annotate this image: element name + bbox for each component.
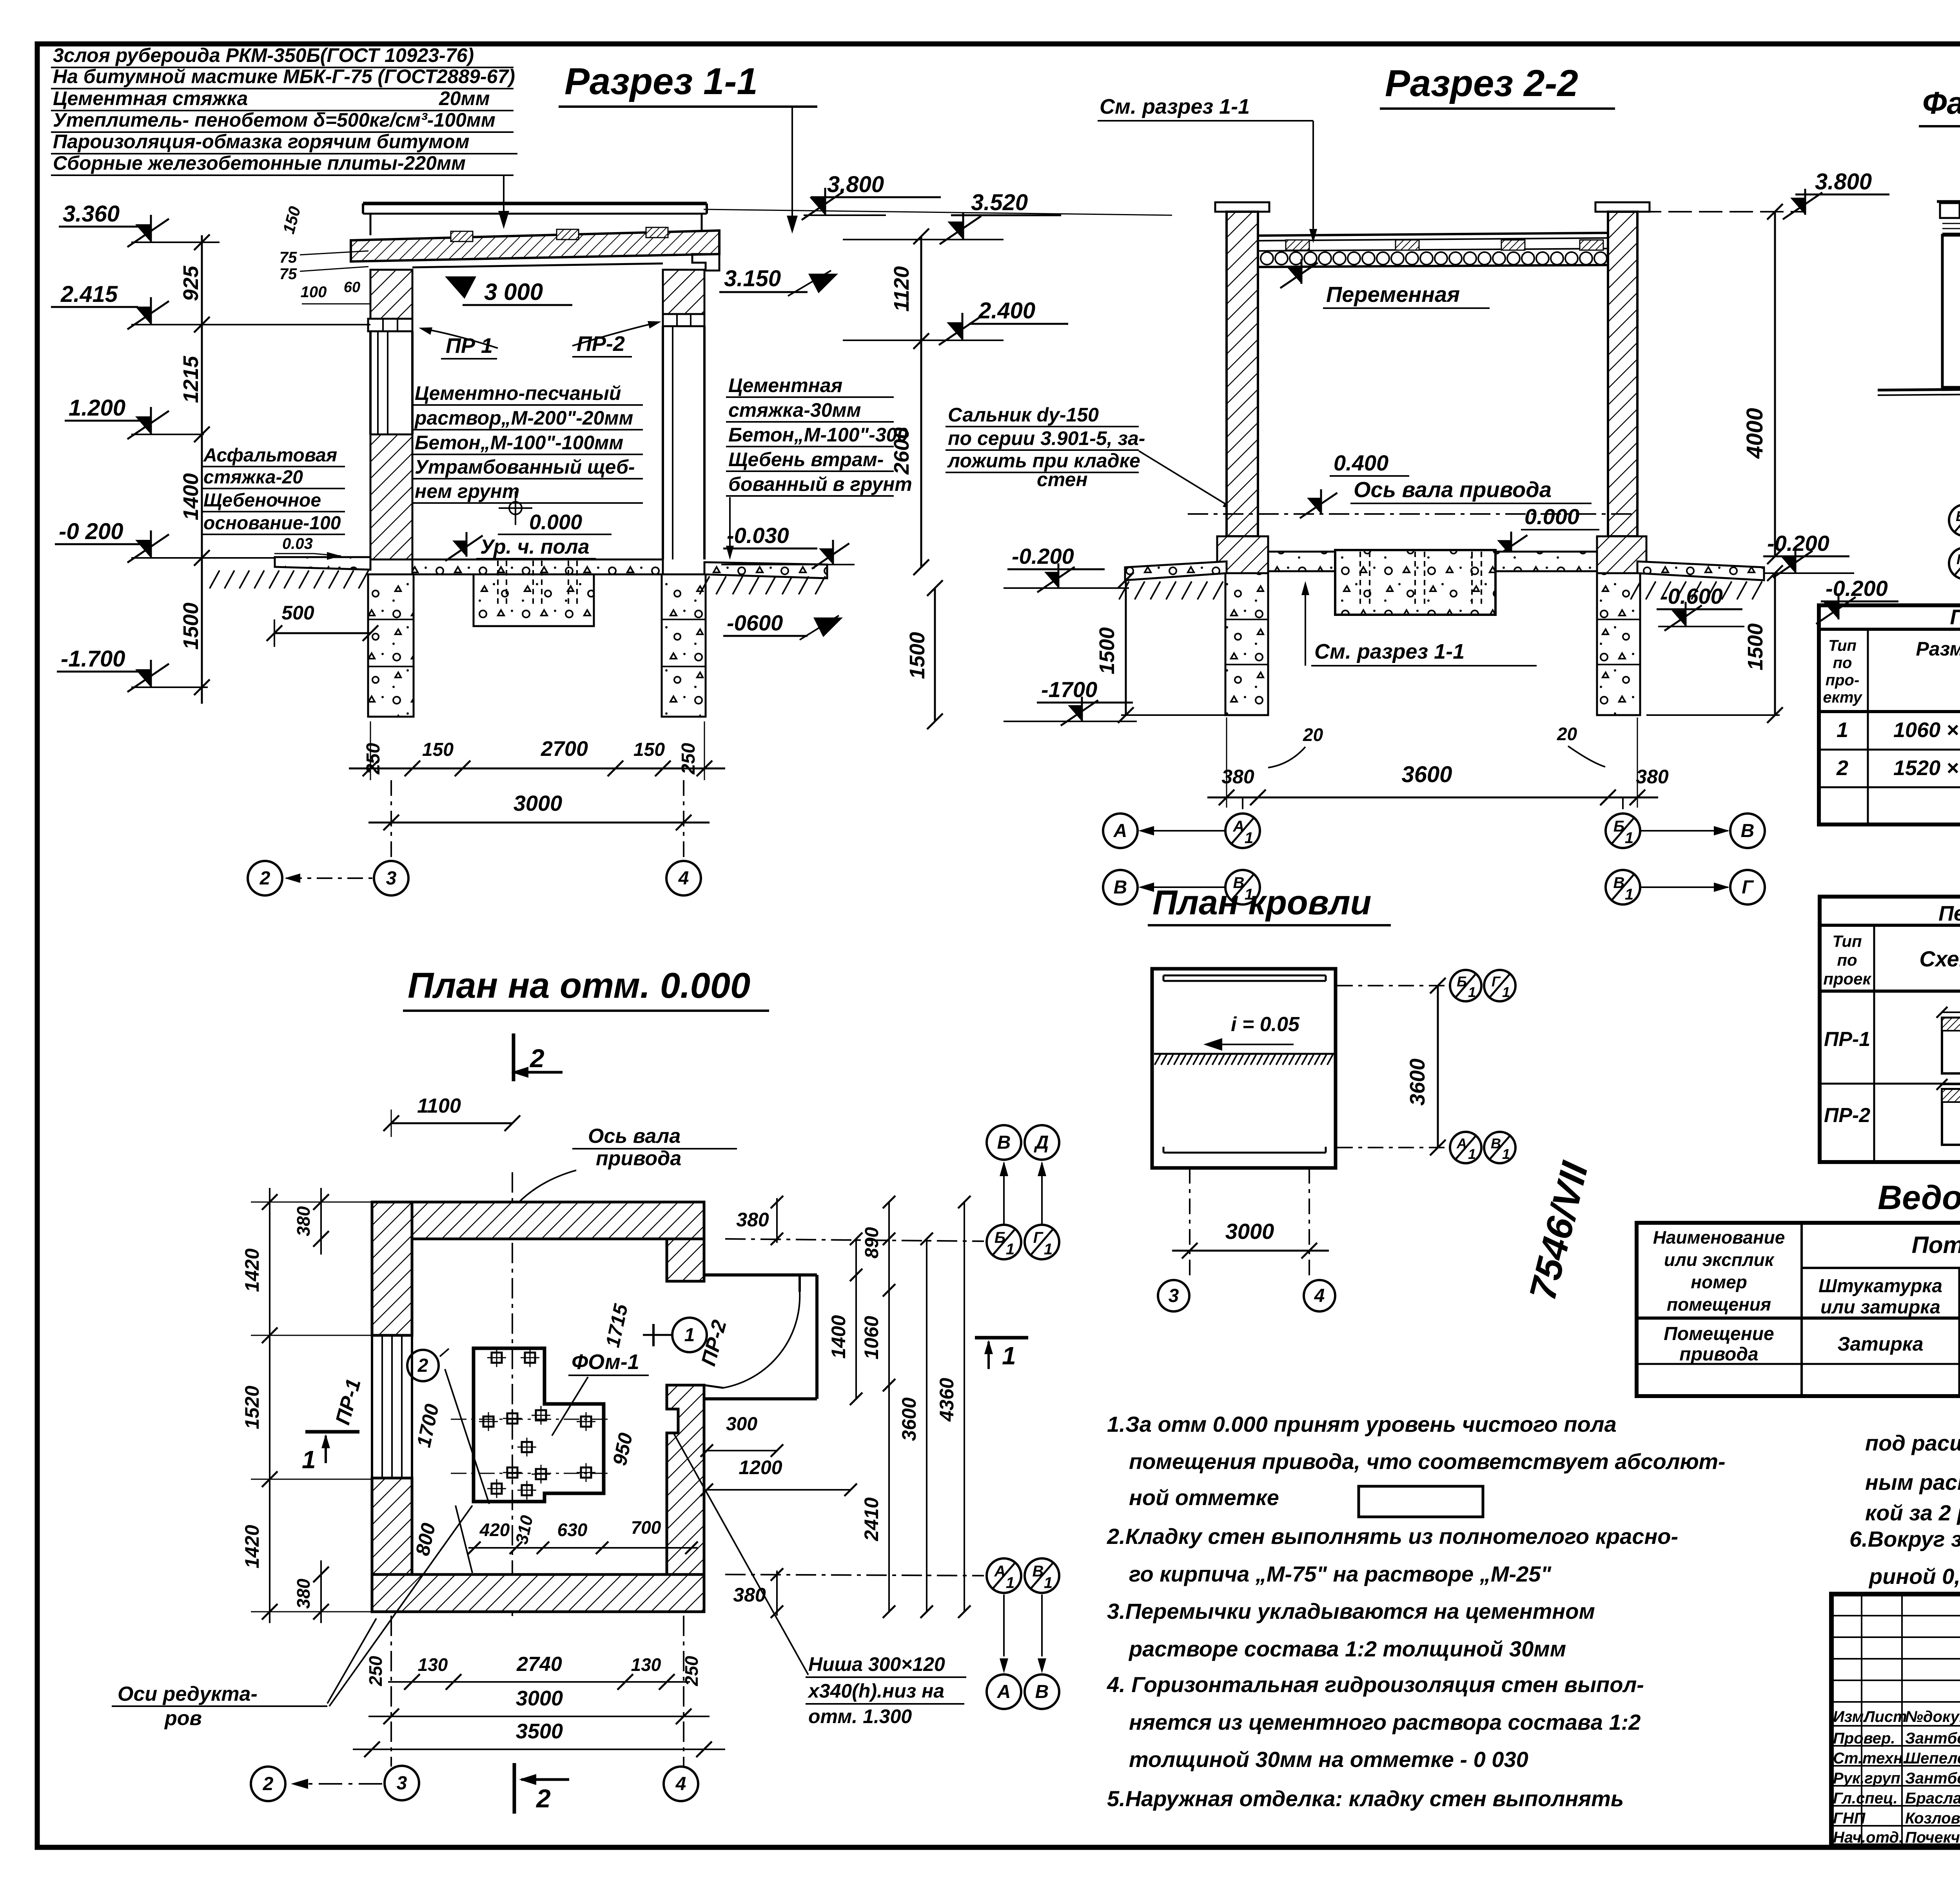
door leaf and swing arc bbox=[799, 1275, 801, 1292]
dim 1500 left (section 2-2) bbox=[1125, 580, 1127, 715]
svg-text:Сборные железобетонные плиты-2: Сборные железобетонные плиты-220мм bbox=[53, 152, 466, 174]
svg-text:3.520: 3.520 bbox=[971, 190, 1028, 215]
svg-text:Зантберг: Зантберг bbox=[1905, 1770, 1960, 1787]
svg-text:Ур. ч. пола: Ур. ч. пола bbox=[480, 536, 590, 558]
svg-text:ПР-2: ПР-2 bbox=[1824, 1104, 1870, 1127]
svg-text:Схема сечения: Схема сечения bbox=[1919, 946, 1960, 971]
svg-text:-0.200: -0.200 bbox=[1826, 576, 1888, 601]
svg-text:4. Горизонтальная гидроизоля: 4. Горизонтальная гидроизоляция стен вып… bbox=[1107, 1672, 1644, 1697]
svg-text:4360: 4360 bbox=[936, 1378, 958, 1422]
svg-text:Ось вала: Ось вала bbox=[588, 1125, 681, 1148]
svg-text:3.150: 3.150 bbox=[724, 266, 781, 291]
svg-text:Утрамбованный щеб-: Утрамбованный щеб- bbox=[415, 456, 635, 478]
svg-text:1520 × 1215: 1520 × 1215 bbox=[1893, 756, 1960, 780]
svg-text:ПР-1: ПР-1 bbox=[1824, 1028, 1870, 1051]
svg-text:1120: 1120 bbox=[890, 266, 913, 312]
svg-text:1215: 1215 bbox=[179, 356, 203, 403]
svg-text:Фасад Б/1(Г/1)-А/1(В/1): Фасад Б/1(Г/1)-А/1(В/1) bbox=[1922, 85, 1960, 120]
svg-text:2.Кладку стен выполнять из: 2.Кладку стен выполнять из полнотелого к… bbox=[1107, 1524, 1678, 1549]
svg-text:3слоя рубероида РКМ-350Б(ГОСТ: 3слоя рубероида РКМ-350Б(ГОСТ 10923-76) bbox=[53, 44, 474, 66]
svg-text:На битумной мастике МБК-Г-75 (: На битумной мастике МБК-Г-75 (ГОСТ2889-6… bbox=[53, 65, 515, 87]
svg-text:1: 1 bbox=[1002, 1342, 1016, 1370]
svg-text:3.360: 3.360 bbox=[63, 201, 120, 227]
svg-text:Пароизоляция-обмазка горячим б: Пароизоляция-обмазка горячим битумом bbox=[53, 131, 470, 153]
svg-text:1: 1 bbox=[1044, 1241, 1053, 1258]
svg-text:2.400: 2.400 bbox=[978, 298, 1035, 323]
svg-text:См. разрез 1-1: См. разрез 1-1 bbox=[1314, 640, 1465, 663]
svg-text:0.03: 0.03 bbox=[282, 535, 313, 552]
facade parapet band bbox=[1942, 217, 1960, 219]
svg-text:1400: 1400 bbox=[179, 473, 203, 520]
svg-text:1: 1 bbox=[302, 1445, 316, 1474]
section 2-2 floor slab bbox=[1268, 552, 1597, 571]
svg-text:Ниша 300×120: Ниша 300×120 bbox=[808, 1653, 945, 1675]
svg-text:помещения привода, что соотв: помещения привода, что соответствует абс… bbox=[1129, 1449, 1726, 1474]
circles A/1,V/1 with arrows to A,B bbox=[987, 1558, 1021, 1593]
svg-text:Провер.: Провер. bbox=[1833, 1730, 1895, 1747]
svg-text:Г: Г bbox=[1956, 551, 1960, 567]
svg-text:3000: 3000 bbox=[1225, 1219, 1274, 1244]
roof plan dim 3000 and axes 3,4 bbox=[1189, 1168, 1191, 1277]
chain 3500 bbox=[353, 1749, 725, 1750]
svg-text:130: 130 bbox=[418, 1654, 448, 1675]
dim 1500 right (section 2-2) bbox=[1774, 573, 1776, 715]
svg-text:1: 1 bbox=[1837, 718, 1848, 742]
svg-text:3000: 3000 bbox=[514, 791, 563, 815]
svg-text:А: А bbox=[994, 1563, 1006, 1580]
svg-text:В: В bbox=[1035, 1682, 1049, 1702]
svg-text:2700: 2700 bbox=[541, 737, 588, 761]
svg-text:1100: 1100 bbox=[417, 1095, 461, 1117]
horizontal axis lines to circles bbox=[725, 1239, 984, 1241]
svg-text:или эксплик: или эксплик bbox=[1664, 1249, 1775, 1270]
svg-text:про-: про- bbox=[1826, 672, 1860, 689]
svg-text:Зантберг.: Зантберг. bbox=[1905, 1730, 1960, 1747]
dim 4000 bbox=[1774, 212, 1776, 556]
svg-text:-0600: -0600 bbox=[727, 610, 783, 635]
section 2-2 roof slab bbox=[1258, 233, 1608, 236]
svg-text:Переменная: Переменная bbox=[1326, 282, 1460, 307]
svg-text:няется из цементного раство: няется из цементного раствора составa 1:… bbox=[1129, 1710, 1641, 1734]
svg-text:№докум.: №докум. bbox=[1905, 1708, 1960, 1725]
circles V,D with arrows to B/1,G/1 bbox=[987, 1125, 1021, 1160]
svg-text:4: 4 bbox=[678, 868, 689, 889]
svg-text:250: 250 bbox=[365, 1656, 386, 1686]
svg-text:Тип: Тип bbox=[1828, 637, 1857, 654]
svg-text:Наименование: Наименование bbox=[1653, 1227, 1785, 1248]
svg-text:1500: 1500 bbox=[1095, 627, 1119, 674]
svg-text:60: 60 bbox=[344, 279, 360, 296]
plan right wall upper piece bbox=[667, 1239, 704, 1281]
section 2-2 axis circles bbox=[1242, 797, 1243, 814]
chain 3000 bbox=[368, 1716, 710, 1717]
svg-text:Ведомость отделки помещений: Ведомость отделки помещений bbox=[1878, 1179, 1960, 1217]
svg-text:В: В bbox=[1114, 877, 1127, 898]
svg-text:380: 380 bbox=[736, 1209, 769, 1231]
section 1-1 right footing bbox=[662, 574, 706, 717]
svg-text:0.400: 0.400 bbox=[1334, 450, 1388, 475]
roof plan dim 3600 bbox=[1437, 986, 1439, 1148]
svg-text:Цементная стяжка: Цементная стяжка bbox=[53, 87, 248, 109]
svg-text:Перемычки: Перемычки bbox=[1938, 902, 1960, 925]
svg-text:2: 2 bbox=[263, 1774, 274, 1794]
svg-text:или затирка: или затирка bbox=[1820, 1297, 1940, 1318]
dim 1700 diagonal bbox=[445, 1369, 489, 1504]
svg-text:В: В bbox=[1613, 874, 1625, 892]
right apron bbox=[704, 562, 827, 578]
svg-text:100: 100 bbox=[301, 283, 327, 301]
svg-text:0.000: 0.000 bbox=[1524, 504, 1579, 529]
svg-text:380: 380 bbox=[733, 1584, 766, 1606]
svg-text:-0.200: -0.200 bbox=[1012, 544, 1074, 568]
svg-text:0.000: 0.000 bbox=[529, 510, 582, 534]
svg-text:Помещение: Помещение bbox=[1664, 1324, 1774, 1344]
svg-text:растворе состава 1:2 толщи: растворе состава 1:2 толщиной 30мм bbox=[1128, 1636, 1566, 1661]
svg-text:5.Наружная отделка: кладку: 5.Наружная отделка: кладку стен выполнят… bbox=[1107, 1786, 1624, 1811]
section mark 2 (bottom) bbox=[513, 1763, 516, 1814]
svg-text:по: по bbox=[1837, 951, 1857, 969]
svg-text:380: 380 bbox=[1636, 766, 1669, 788]
svg-text:380: 380 bbox=[293, 1578, 314, 1609]
svg-text:20мм: 20мм bbox=[439, 87, 490, 109]
section 1-1 left wall window zone bbox=[369, 331, 372, 434]
roof plan axis circles right bbox=[1337, 985, 1450, 986]
svg-text:1: 1 bbox=[1044, 1574, 1053, 1592]
plan top wall bbox=[372, 1202, 704, 1239]
svg-text:Затирка: Затирка bbox=[1837, 1333, 1923, 1355]
svg-text:В: В bbox=[1491, 1135, 1501, 1151]
svg-text:Шепеленко: Шепеленко bbox=[1905, 1750, 1960, 1767]
span dim 3000 bbox=[445, 276, 476, 299]
svg-text:75: 75 bbox=[279, 265, 297, 283]
svg-text:Б: Б bbox=[1613, 818, 1624, 835]
svg-text:1500: 1500 bbox=[179, 603, 203, 650]
svg-text:го кирпича „М-75" на раство: го кирпича „М-75" на растворе „М-25" bbox=[1129, 1562, 1552, 1586]
svg-text:1: 1 bbox=[1245, 830, 1253, 847]
svg-text:А: А bbox=[997, 1682, 1011, 1702]
svg-text:3: 3 bbox=[397, 1773, 407, 1794]
svg-text:ным раствором. Окна и две: ным раствором. Окна и двери окрасить мас… bbox=[1865, 1470, 1960, 1494]
svg-text:1: 1 bbox=[1625, 830, 1633, 847]
plan left wall lower block bbox=[372, 1478, 412, 1574]
svg-text:ГНП: ГНП bbox=[1833, 1810, 1866, 1827]
svg-text:2: 2 bbox=[535, 1784, 551, 1813]
bottom chain 250/150/2700/150/250 bbox=[349, 768, 725, 770]
svg-text:Утеплитель- пенобетом δ=500кг: Утеплитель- пенобетом δ=500кг/см³-100мм bbox=[53, 109, 495, 131]
svg-text:Рук.груп: Рук.груп bbox=[1833, 1770, 1900, 1787]
svg-text:В: В bbox=[1741, 821, 1755, 841]
svg-text:Г: Г bbox=[1742, 877, 1754, 898]
section 1-1 floor slab bbox=[412, 559, 663, 574]
svg-text:Браславский: Браславский bbox=[1905, 1790, 1960, 1807]
svg-text:номер: номер bbox=[1691, 1272, 1747, 1292]
title block outer bbox=[1831, 1594, 1960, 1846]
svg-text:150: 150 bbox=[422, 739, 454, 760]
svg-text:3600: 3600 bbox=[1406, 1059, 1429, 1106]
svg-text:-1.700: -1.700 bbox=[61, 646, 125, 672]
svg-text:Размер в кладке: Размер в кладке bbox=[1916, 638, 1960, 660]
plan bottom axis circles 2,3,4 bbox=[390, 1616, 392, 1767]
svg-text:3.800: 3.800 bbox=[1815, 169, 1872, 194]
svg-text:4: 4 bbox=[1314, 1286, 1325, 1306]
bolt axis lines bbox=[451, 1419, 612, 1420]
svg-text:Щебень втрам-: Щебень втрам- bbox=[728, 449, 884, 470]
svg-text:3000: 3000 bbox=[516, 1687, 563, 1710]
dim 800 bbox=[456, 1505, 472, 1573]
svg-text:Гл.спец.: Гл.спец. bbox=[1833, 1790, 1898, 1807]
svg-text:3: 3 bbox=[1169, 1286, 1179, 1306]
plan left wall upper block bbox=[372, 1202, 412, 1335]
doors table grid bbox=[1819, 605, 1960, 824]
anchor bolts bbox=[492, 1353, 502, 1363]
svg-text:-0.200: -0.200 bbox=[1767, 531, 1829, 556]
svg-text:1060 × 2400: 1060 × 2400 bbox=[1893, 718, 1960, 742]
svg-text:-0.600: -0.600 bbox=[1661, 584, 1723, 608]
section 1-1 right wall lintel block bbox=[663, 270, 704, 314]
svg-text:1200: 1200 bbox=[739, 1456, 782, 1478]
svg-text:925: 925 bbox=[179, 265, 203, 301]
svg-text:Проемы: Проемы bbox=[1950, 605, 1960, 629]
svg-text:Д: Д bbox=[1034, 1132, 1049, 1153]
svg-text:стяжка-30мм: стяжка-30мм bbox=[728, 399, 861, 421]
svg-text:2410: 2410 bbox=[860, 1497, 882, 1541]
svg-text:Цементная: Цементная bbox=[728, 374, 842, 396]
svg-text:А: А bbox=[1113, 821, 1127, 841]
svg-text:екту: екту bbox=[1823, 689, 1862, 706]
svg-text:-1700: -1700 bbox=[1041, 677, 1097, 702]
svg-text:1: 1 bbox=[684, 1325, 695, 1346]
svg-text:Разрез 1-1: Разрез 1-1 bbox=[564, 60, 758, 102]
svg-text:А: А bbox=[1456, 1135, 1467, 1151]
svg-text:3600: 3600 bbox=[898, 1397, 920, 1441]
svg-text:2: 2 bbox=[417, 1355, 428, 1376]
drive shaft axis line bbox=[1188, 513, 1637, 515]
bottom chain 380/3600/380 bbox=[1207, 797, 1658, 799]
svg-text:Ст.техн.: Ст.техн. bbox=[1833, 1750, 1907, 1767]
svg-text:20: 20 bbox=[1303, 725, 1323, 745]
svg-text:3.800: 3.800 bbox=[827, 172, 884, 197]
svg-text:130: 130 bbox=[631, 1654, 661, 1675]
svg-text:300: 300 bbox=[726, 1414, 757, 1435]
svg-text:4: 4 bbox=[675, 1774, 686, 1794]
section 1-1 left footing bbox=[368, 574, 414, 717]
section 2-2 left wall bbox=[1227, 212, 1258, 536]
svg-text:380: 380 bbox=[1221, 766, 1254, 788]
svg-text:План кровли: План кровли bbox=[1152, 883, 1371, 922]
svg-text:План на отм. 0.000: План на отм. 0.000 bbox=[408, 966, 750, 1006]
svg-text:i = 0.05: i = 0.05 bbox=[1231, 1013, 1300, 1036]
section 1-1 right wall shaft bbox=[662, 326, 664, 559]
svg-text:бованный в грунт: бованный в грунт bbox=[728, 473, 912, 495]
svg-text:Почекча: Почекча bbox=[1905, 1829, 1960, 1846]
svg-text:нем грунт: нем грунт bbox=[415, 480, 519, 502]
svg-text:250: 250 bbox=[363, 743, 384, 775]
svg-text:1420: 1420 bbox=[241, 1525, 263, 1568]
plan bottom wall bbox=[372, 1574, 704, 1612]
axis circle 2 in plan bbox=[407, 1350, 439, 1381]
title block signature grid bbox=[1831, 1615, 1960, 1616]
svg-text:20: 20 bbox=[1557, 724, 1577, 744]
svg-text:Ось вала привода: Ось вала привода bbox=[1354, 477, 1552, 502]
svg-text:1.За отм 0.000 принят уров: 1.За отм 0.000 принят уровень чистого по… bbox=[1107, 1412, 1617, 1436]
vestibule outline bbox=[704, 1273, 817, 1277]
foundation block FOm-1 bbox=[474, 1348, 604, 1502]
facade wall outline bbox=[1942, 235, 1960, 387]
svg-text:6.Вокруг здания устраивается: 6.Вокруг здания устраивается асфальтовая… bbox=[1849, 1527, 1960, 1551]
svg-text:1: 1 bbox=[1625, 886, 1633, 903]
svg-text:2: 2 bbox=[1836, 756, 1848, 780]
svg-text:250: 250 bbox=[678, 743, 699, 775]
svg-text:Оси редукта-: Оси редукта- bbox=[118, 1683, 258, 1705]
svg-text:Б: Б bbox=[1956, 508, 1960, 524]
svg-text:См. разрез 1-1: См. разрез 1-1 bbox=[1100, 95, 1250, 118]
svg-text:Б: Б bbox=[995, 1229, 1005, 1246]
svg-text:под расшивку швов, цоколь и: под расшивку швов, цоколь и откосы оштук… bbox=[1865, 1431, 1960, 1455]
svg-text:Разрез 2-2: Разрез 2-2 bbox=[1385, 62, 1578, 104]
svg-text:Потолок: Потолок bbox=[1912, 1232, 1960, 1258]
section 2-2 left apron bbox=[1125, 561, 1227, 580]
section mark 1 (right) bbox=[975, 1336, 1028, 1340]
svg-text:стен: стен bbox=[1037, 469, 1088, 490]
roof drip hatched strip bbox=[1154, 1053, 1336, 1055]
svg-text:Асфальтовая: Асфальтовая bbox=[203, 445, 337, 466]
finishes table grid bbox=[1637, 1223, 1960, 1396]
section 1-1 cornice right bbox=[692, 254, 719, 271]
svg-text:3.Перемычки укладываются на: 3.Перемычки укладываются на цементном bbox=[1107, 1599, 1595, 1623]
section 1-1 ceiling line bbox=[412, 263, 663, 267]
svg-text:Г: Г bbox=[1492, 973, 1501, 990]
svg-text:1500: 1500 bbox=[906, 632, 929, 679]
svg-text:2: 2 bbox=[260, 868, 270, 889]
svg-text:привода: привода bbox=[596, 1147, 681, 1170]
interior bottom chain 420/310/630/700 bbox=[468, 1547, 698, 1549]
svg-text:кой за 2 раза.: кой за 2 раза. bbox=[1865, 1500, 1960, 1525]
svg-text:1500: 1500 bbox=[1744, 623, 1767, 670]
section 1-1 central foundation pit bbox=[474, 574, 594, 626]
section 2-2 right wall footing widening bbox=[1597, 536, 1646, 573]
svg-text:Изм.: Изм. bbox=[1833, 1708, 1868, 1725]
lintel PR2 row bbox=[663, 314, 704, 326]
svg-text:Сальник dу-150: Сальник dу-150 bbox=[948, 404, 1099, 426]
svg-text:ФОм-1: ФОм-1 bbox=[572, 1350, 639, 1374]
empty elevation box in note 1 bbox=[1359, 1486, 1483, 1517]
svg-text:-0 200: -0 200 bbox=[59, 519, 123, 544]
svg-text:отм. 1.300: отм. 1.300 bbox=[808, 1705, 912, 1727]
svg-text:ПР 1: ПР 1 bbox=[446, 334, 493, 358]
facade ground line bbox=[1878, 387, 1960, 390]
svg-text:700: 700 bbox=[631, 1517, 661, 1538]
svg-text:75: 75 bbox=[279, 249, 297, 266]
section 2-2 right wall bbox=[1608, 212, 1637, 536]
svg-text:Нач.отд.: Нач.отд. bbox=[1833, 1829, 1903, 1846]
svg-text:раствор„М-200"-20мм: раствор„М-200"-20мм bbox=[414, 407, 633, 429]
svg-text:420: 420 bbox=[479, 1520, 510, 1540]
svg-text:Г: Г bbox=[1033, 1229, 1044, 1246]
svg-text:2.415: 2.415 bbox=[60, 281, 118, 307]
svg-text:Цементно-песчаный: Цементно-песчаный bbox=[415, 382, 621, 404]
svg-text:ной отметке: ной отметке bbox=[1129, 1485, 1279, 1510]
svg-text:ров: ров bbox=[164, 1707, 202, 1730]
svg-text:3: 3 bbox=[386, 868, 397, 889]
left asphalt apron bbox=[275, 557, 370, 570]
svg-text:Штукатурка: Штукатурка bbox=[1818, 1276, 1942, 1297]
section 2-2 right apron bbox=[1637, 561, 1764, 580]
leader from spec list to roof of section 1-1 bbox=[503, 176, 505, 226]
svg-text:3500: 3500 bbox=[516, 1720, 563, 1743]
lintel PR1 row bbox=[368, 319, 412, 331]
svg-text:Лист: Лист bbox=[1863, 1708, 1907, 1725]
axis circles 2 3 4 bbox=[248, 861, 282, 895]
section mark 1 (left) bbox=[305, 1430, 359, 1434]
svg-text:А: А bbox=[1233, 818, 1245, 835]
svg-text:Бетон„М-100"-100мм: Бетон„М-100"-100мм bbox=[415, 432, 623, 454]
svg-text:стяжка-20: стяжка-20 bbox=[203, 467, 303, 488]
section 2-2 left wall footing widening bbox=[1217, 536, 1268, 573]
svg-text:630: 630 bbox=[557, 1520, 588, 1540]
section 1-1 roof slab (hatched) bbox=[351, 231, 719, 261]
svg-text:1: 1 bbox=[1502, 1146, 1510, 1162]
svg-text:Козловская: Козловская bbox=[1905, 1810, 1960, 1827]
section mark 2 (top) bbox=[512, 1033, 515, 1081]
plan right wall lower piece with niche bbox=[667, 1385, 704, 1574]
svg-text:380: 380 bbox=[293, 1206, 314, 1236]
svg-text:-0.030: -0.030 bbox=[727, 523, 789, 548]
section 1-1 left wall lower block bbox=[370, 434, 412, 559]
right chain 1500 bbox=[934, 588, 936, 721]
wall break marks bbox=[504, 1213, 521, 1218]
axis circle 1 in plan bbox=[672, 1318, 707, 1352]
lintels table grid bbox=[1820, 897, 1960, 1162]
svg-text:1: 1 bbox=[1468, 1146, 1476, 1162]
svg-text:1: 1 bbox=[1006, 1574, 1014, 1592]
svg-text:ПР-2: ПР-2 bbox=[577, 332, 625, 356]
svg-text:Бетон„М-100"-300: Бетон„М-100"-300 bbox=[728, 424, 908, 446]
section 1-1 left wall lintel block bbox=[370, 270, 412, 319]
svg-text:привода: привода bbox=[1679, 1344, 1758, 1365]
section 2-2 foundation pit bbox=[1335, 550, 1495, 615]
svg-text:1: 1 bbox=[1006, 1241, 1014, 1258]
svg-text:1400: 1400 bbox=[828, 1315, 849, 1358]
variable height mark bbox=[1287, 268, 1301, 284]
plan left wall window PR-1 bbox=[371, 1335, 373, 1478]
svg-text:В: В bbox=[1033, 1563, 1044, 1580]
bottom chain 3000 bbox=[368, 822, 710, 824]
svg-text:2: 2 bbox=[529, 1044, 544, 1073]
svg-text:толщиной 30мм на отметке: толщиной 30мм на отметке - 0 030 bbox=[1129, 1747, 1528, 1772]
svg-text:1: 1 bbox=[1468, 984, 1476, 1000]
svg-text:Тип: Тип bbox=[1832, 932, 1862, 950]
svg-text:1: 1 bbox=[1502, 984, 1510, 1000]
svg-text:2740: 2740 bbox=[516, 1653, 562, 1676]
svg-text:помещения: помещения bbox=[1667, 1294, 1771, 1315]
svg-text:Б: Б bbox=[1457, 973, 1467, 990]
svg-text:проек: проек bbox=[1823, 970, 1871, 988]
left vertical dimension chain bbox=[201, 235, 203, 704]
svg-text:1520: 1520 bbox=[241, 1386, 263, 1429]
svg-text:основание-100: основание-100 bbox=[203, 513, 341, 534]
section 1-1 roof parapet cap bbox=[363, 202, 707, 205]
svg-text:В: В bbox=[997, 1132, 1011, 1153]
roof plan outline bbox=[1152, 969, 1336, 1168]
svg-text:3600: 3600 bbox=[1401, 762, 1452, 787]
svg-text:150: 150 bbox=[633, 739, 665, 760]
svg-text:1060: 1060 bbox=[860, 1316, 882, 1359]
svg-text:2600: 2600 bbox=[890, 427, 913, 475]
chain 130/2740/130 bbox=[388, 1681, 690, 1683]
leader from title to roof bbox=[791, 107, 793, 231]
svg-text:по серии 3.901-5, за-: по серии 3.901-5, за- bbox=[948, 427, 1145, 449]
left chains of plan bbox=[269, 1188, 270, 1623]
